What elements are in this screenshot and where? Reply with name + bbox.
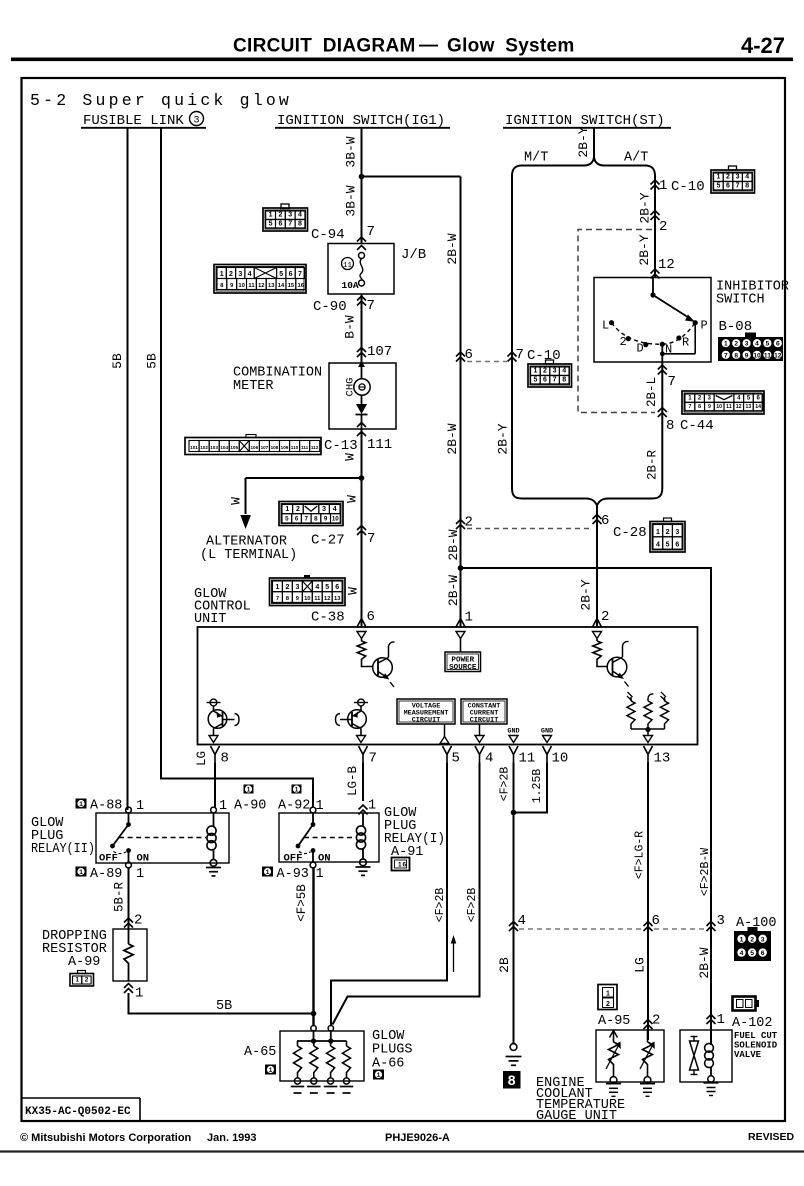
wire LG-B pin7 to relay coil (362, 763, 364, 802)
svg-text:<F>2B-W: <F>2B-W (699, 848, 712, 896)
svg-text:A-65: A-65 (244, 1045, 276, 1060)
current arrow pin5 (451, 935, 457, 972)
connector C-13 (185, 435, 358, 455)
svg-text:10: 10 (332, 515, 339, 522)
svg-text:4: 4 (333, 506, 337, 513)
GCU pin 5 fork (443, 746, 460, 767)
svg-text:6: 6 (726, 182, 730, 189)
svg-text:5: 5 (279, 271, 283, 278)
connector A-100 (734, 916, 777, 961)
svg-text:101: 101 (190, 445, 198, 450)
svg-text:2: 2 (726, 174, 730, 181)
svg-text:A-88: A-88 (90, 799, 122, 814)
svg-text:2: 2 (296, 506, 300, 513)
label A-102 (732, 1016, 773, 1031)
label A-93 (277, 867, 324, 882)
footer copyright (20, 1132, 257, 1144)
relay II contact (99, 807, 149, 864)
svg-text:<F>2B: <F>2B (499, 767, 512, 802)
svg-text:7: 7 (367, 298, 375, 314)
svg-text:10: 10 (552, 751, 569, 767)
inhibitor switch label (716, 280, 789, 336)
svg-text:A-90: A-90 (234, 799, 266, 814)
label 2B-W 2 (445, 423, 460, 454)
glow control unit box (198, 627, 698, 745)
svg-text:5: 5 (666, 542, 670, 549)
svg-text:1: 1 (75, 976, 79, 983)
svg-text:PHJE9026-A: PHJE9026-A (385, 1132, 450, 1144)
resistor bus and node (631, 727, 665, 736)
svg-text:A-92: A-92 (278, 799, 310, 814)
label 2B (497, 957, 512, 973)
GCU pin8 triangle (209, 736, 218, 743)
GND pin11 (507, 728, 519, 743)
dropping resistor box (113, 929, 147, 981)
svg-text:1: 1 (656, 529, 660, 536)
svg-text:8: 8 (698, 404, 701, 410)
GCU pin1 input triangle (456, 632, 465, 639)
wire F5B (312, 868, 314, 1026)
svg-text:6: 6 (278, 220, 282, 227)
svg-text:2B-W: 2B-W (697, 947, 712, 978)
wire pin5 to glow plugs (331, 763, 447, 1026)
svg-text:3: 3 (717, 913, 725, 929)
svg-text:2B-W: 2B-W (445, 233, 460, 264)
label 2B-Y MT (496, 423, 511, 454)
svg-text:1.25B: 1.25B (531, 769, 544, 804)
pin 2 C-44 (659, 219, 667, 235)
svg-text:1: 1 (659, 178, 667, 194)
pin 2 GCU (601, 609, 609, 625)
pin 1 GCU (465, 610, 473, 626)
connector C-94 (263, 204, 345, 243)
pin 6 C-38 (367, 609, 375, 625)
connector icon A-91 (392, 858, 410, 871)
pin 7 B-08 (668, 374, 676, 390)
svg-text:1: 1 (220, 271, 224, 278)
transistor Q1 (373, 642, 395, 687)
svg-text:9: 9 (324, 515, 328, 522)
svg-text:111: 111 (301, 445, 309, 450)
GCU pin7 triangle (357, 736, 366, 743)
label A-89 (90, 867, 144, 882)
connector icon A-88 (76, 799, 87, 809)
svg-text:4: 4 (315, 584, 319, 591)
svg-text:4-27: 4-27 (741, 33, 785, 58)
label W alternator (229, 497, 244, 505)
label 5B right (145, 353, 160, 369)
svg-text:2B: 2B (497, 957, 512, 973)
svg-text:VALVE: VALVE (734, 1050, 762, 1060)
pin 8 C-44 (666, 418, 714, 434)
svg-text:103: 103 (210, 445, 218, 450)
GCU pin 11 fork (509, 746, 535, 767)
label W 3 (346, 587, 361, 595)
svg-text:108: 108 (271, 445, 279, 450)
wire split M/T A/T (512, 156, 655, 361)
svg-text:1: 1 (247, 786, 251, 793)
label M/T (524, 151, 548, 166)
svg-text:9: 9 (296, 596, 300, 602)
svg-text:3: 3 (745, 341, 749, 348)
svg-text:2: 2 (750, 936, 754, 943)
page header title (233, 35, 575, 57)
svg-text:7: 7 (688, 404, 691, 410)
svg-text:METER: METER (233, 379, 274, 394)
svg-text:2B-Y: 2B-Y (579, 579, 594, 610)
svg-text:7: 7 (369, 751, 377, 767)
svg-text:2: 2 (85, 976, 89, 983)
svg-text:6: 6 (757, 396, 761, 402)
svg-text:2B-Y: 2B-Y (638, 192, 653, 223)
svg-text:1: 1 (269, 212, 273, 219)
label 2B-Y stem (576, 126, 591, 157)
label B-W (343, 315, 358, 339)
fuel cut valve symbol (690, 1037, 699, 1075)
fuel cut solenoid valve label (734, 1031, 778, 1060)
ECT gauge thermistors (606, 1030, 655, 1096)
resistor R3 (627, 692, 635, 729)
svg-text:A/T: A/T (624, 151, 648, 166)
svg-text:5: 5 (750, 950, 754, 957)
svg-text:C-44: C-44 (680, 418, 714, 434)
chevron C-28 pin6 (593, 515, 602, 525)
transistor Q2 (607, 641, 628, 686)
svg-text:9: 9 (745, 352, 749, 359)
wire W to C-27 (361, 478, 363, 627)
svg-text:7: 7 (288, 220, 292, 227)
junction block J/B (328, 244, 426, 295)
svg-text:C-13: C-13 (324, 438, 358, 454)
ground pin11 wire (506, 1044, 522, 1066)
wire to alternator (246, 478, 362, 514)
svg-text:2B-Y: 2B-Y (637, 234, 652, 265)
svg-text:7: 7 (724, 352, 728, 359)
svg-text:6: 6 (465, 347, 473, 363)
svg-text:A-89: A-89 (90, 867, 122, 882)
svg-text:C-38: C-38 (311, 610, 345, 626)
svg-text:SOLENOID: SOLENOID (734, 1041, 778, 1051)
svg-text:14: 14 (755, 404, 761, 410)
svg-text:1: 1 (377, 1072, 381, 1079)
chevron dropping resistor pin1 (124, 984, 133, 994)
svg-text:5-2 Super quick glow: 5-2 Super quick glow (30, 91, 292, 110)
svg-text:111: 111 (367, 437, 392, 453)
footer revised (748, 1131, 795, 1143)
svg-text:CHG: CHG (345, 378, 357, 397)
chevron C-27 (357, 526, 366, 536)
svg-text:1: 1 (276, 584, 280, 591)
svg-text:1: 1 (716, 174, 720, 181)
wire W below meter (361, 429, 363, 478)
wire B-W (361, 294, 363, 363)
alternator arrow (240, 515, 251, 529)
svg-text:2B-W: 2B-W (445, 423, 460, 454)
chevron A-95 pin2 (644, 1020, 653, 1030)
svg-text:14: 14 (278, 283, 285, 289)
svg-text:1: 1 (740, 936, 744, 943)
svg-text:A-102: A-102 (732, 1016, 773, 1031)
label 2B-Y to GCU (579, 579, 594, 610)
svg-text:CIRCUIT: CIRCUIT (470, 717, 499, 725)
combination meter label (233, 366, 322, 395)
ground ref 8 block (503, 1071, 521, 1089)
voltage measurement circuit box (397, 699, 455, 737)
svg-text:3: 3 (761, 936, 765, 943)
svg-text:2: 2 (601, 609, 609, 625)
transistor Q3 (207, 699, 240, 735)
svg-text:SWITCH: SWITCH (716, 293, 765, 308)
svg-text:2: 2 (606, 1001, 610, 1008)
svg-text:C-10: C-10 (671, 179, 705, 195)
svg-text:<F>2B: <F>2B (466, 888, 479, 923)
svg-text:6: 6 (761, 950, 765, 957)
label A-90 (219, 785, 266, 815)
svg-text:1: 1 (219, 799, 227, 814)
svg-text:A-99: A-99 (68, 955, 100, 970)
svg-text:2: 2 (278, 212, 282, 219)
chevron C-44 pin8 (658, 408, 667, 418)
svg-text:7: 7 (553, 376, 557, 383)
label 5B bottom (216, 999, 232, 1014)
svg-text:C-90: C-90 (313, 299, 347, 315)
chevron wire13 pin6 (644, 922, 653, 932)
svg-text:C-28: C-28 (613, 525, 647, 541)
svg-text:5: 5 (747, 396, 751, 402)
resistor R1 (357, 639, 373, 667)
svg-text:GND: GND (507, 728, 519, 736)
svg-text:1: 1 (285, 506, 289, 513)
svg-text:13: 13 (746, 404, 752, 410)
svg-text:D: D (637, 342, 644, 356)
svg-text:B-W: B-W (343, 315, 358, 339)
label 2B-L (645, 377, 659, 407)
glow control unit label (194, 587, 251, 627)
svg-text:16: 16 (297, 283, 304, 289)
pin 3 dashed (717, 913, 725, 929)
svg-text:(L TERMINAL): (L TERMINAL) (200, 548, 297, 563)
svg-text:10: 10 (238, 283, 244, 289)
svg-text:3: 3 (193, 116, 199, 127)
svg-text:4: 4 (298, 212, 302, 219)
header rule (11, 58, 793, 62)
svg-text:8: 8 (298, 220, 302, 227)
ECT gauge unit label (536, 1076, 625, 1124)
svg-text:1: 1 (136, 799, 144, 814)
section title 5-2 Super quick glow (30, 91, 292, 110)
svg-text:ON: ON (137, 853, 150, 865)
GND pin10 (541, 728, 553, 743)
pin 1 dropping resistor (135, 986, 143, 1002)
connector icon A-99 (70, 971, 94, 987)
svg-text:1: 1 (135, 986, 143, 1002)
svg-text:8: 8 (286, 596, 290, 602)
svg-text:2: 2 (134, 913, 142, 929)
svg-text:1: 1 (606, 990, 610, 997)
fork GCU pin2 (593, 610, 602, 627)
connector C-10 MT (528, 360, 572, 387)
node junction 2B-W solenoid feed (458, 565, 464, 571)
node junction IG1 branch (359, 174, 365, 180)
svg-text:4: 4 (745, 174, 749, 181)
chevron C-94 (357, 237, 366, 250)
pin 2 C-28 left (465, 515, 473, 531)
svg-text:6: 6 (776, 341, 780, 348)
wire 2B-W to solenoid (461, 568, 712, 1045)
chevron C-10 pin7 (508, 352, 517, 362)
svg-text:2B-Y: 2B-Y (496, 423, 511, 454)
stamp box KX35 (22, 1098, 141, 1121)
node pin10 join (511, 810, 517, 816)
inhibitor switch box (594, 278, 711, 363)
label F2B-W (699, 848, 712, 896)
relay II box (96, 813, 229, 863)
GCU pin5 triangle (440, 737, 449, 744)
pin 1 A-91 coil (368, 799, 376, 814)
GCU pin2 input triangle (593, 632, 602, 639)
chevron 111 (357, 423, 366, 437)
wire 5B right (161, 128, 313, 807)
svg-text:2B-R: 2B-R (646, 450, 660, 481)
dashed connector C-10 link (467, 361, 507, 363)
svg-text:11: 11 (519, 751, 536, 767)
svg-text:4: 4 (737, 396, 741, 402)
svg-text:4: 4 (485, 751, 493, 767)
svg-text:RELAY(II): RELAY(II) (31, 842, 95, 857)
GCU pin 10 fork (543, 746, 569, 767)
pin 107 (367, 344, 392, 360)
svg-text:5: 5 (452, 751, 460, 767)
svg-text:GAUGE UNIT: GAUGE UNIT (536, 1109, 617, 1124)
svg-text:5: 5 (269, 220, 273, 227)
svg-text:5B: 5B (110, 353, 125, 369)
svg-text:8: 8 (221, 751, 229, 767)
svg-text:7: 7 (736, 182, 740, 189)
svg-text:5: 5 (533, 376, 537, 383)
svg-text:11: 11 (248, 283, 255, 289)
dropping resistor label (42, 929, 107, 970)
svg-text:1: 1 (316, 799, 324, 814)
svg-text:3: 3 (708, 396, 712, 402)
svg-text:A-100: A-100 (736, 916, 777, 931)
fuel cut solenoid coil (704, 1041, 719, 1096)
svg-text:5: 5 (766, 341, 770, 348)
constant current circuit box (461, 699, 507, 736)
label 5B left (110, 353, 125, 369)
svg-text:2: 2 (285, 584, 289, 591)
svg-text:7: 7 (367, 531, 375, 547)
wire 2B-L (661, 362, 663, 488)
svg-text:A-66: A-66 (372, 1057, 404, 1072)
pin 4 dashed (518, 913, 526, 929)
svg-text:2: 2 (734, 341, 738, 348)
svg-text:13: 13 (654, 751, 671, 767)
relay II coil (206, 807, 221, 876)
svg-text:P: P (701, 319, 708, 333)
label W 1 (343, 453, 358, 461)
label A-95 (598, 1013, 660, 1030)
svg-text:2: 2 (543, 368, 547, 375)
svg-text:12: 12 (258, 283, 264, 289)
relay I contact (284, 807, 331, 864)
label LG-B (346, 766, 360, 797)
svg-text:102: 102 (200, 445, 208, 450)
svg-text:110: 110 (291, 445, 299, 450)
svg-text:107: 107 (261, 445, 269, 450)
label 2B-W 4 (446, 575, 461, 606)
chevron solenoid pin3 (707, 922, 716, 932)
svg-text:FUEL CUT: FUEL CUT (734, 1031, 778, 1041)
label 2B-Y AT 1 (638, 192, 653, 223)
svg-text:6: 6 (403, 862, 407, 869)
svg-text:105: 105 (230, 445, 238, 450)
label A-88 (90, 799, 144, 815)
combination meter box (329, 363, 396, 429)
chevron wire11 pin4 (509, 922, 518, 932)
label 5B-R (113, 882, 127, 913)
svg-text:UNIT: UNIT (194, 612, 226, 627)
dashed connector C-28 link (467, 528, 592, 530)
svg-text:112: 112 (311, 445, 319, 450)
wire pin4 to glow plugs (333, 763, 480, 1025)
label 1.25B pin10 (531, 769, 544, 804)
glow plug elements (291, 1041, 354, 1093)
svg-text:1: 1 (717, 1012, 725, 1028)
svg-text:KX35-AC-Q0502-EC: KX35-AC-Q0502-EC (25, 1106, 131, 1118)
svg-text:CIRCUIT: CIRCUIT (412, 717, 441, 725)
svg-text:2B-L: 2B-L (645, 377, 659, 407)
svg-text:2: 2 (666, 529, 670, 536)
svg-text:2: 2 (229, 271, 233, 278)
label LG pin8 (195, 751, 209, 766)
ECT gauge unit box (596, 1030, 664, 1082)
svg-text:GND: GND (541, 728, 553, 736)
svg-text:6: 6 (367, 609, 375, 625)
svg-text:1: 1 (465, 610, 473, 626)
label LG (633, 957, 648, 973)
svg-text:PLUGS: PLUGS (372, 1043, 413, 1058)
relay II dashed link (119, 837, 206, 839)
svg-text:1: 1 (398, 862, 402, 869)
svg-text:5: 5 (325, 584, 329, 591)
svg-text:1: 1 (688, 396, 692, 402)
connector icon A-93 (262, 867, 273, 877)
fuse 10A circled 11 (342, 253, 365, 292)
svg-text:9: 9 (230, 283, 234, 289)
ignition switch IG1 label (275, 113, 450, 129)
svg-text:LG: LG (195, 751, 209, 766)
node 5B junction (311, 1011, 317, 1017)
svg-text:7: 7 (298, 271, 302, 278)
svg-text:2B-W: 2B-W (446, 529, 461, 560)
wire 2B-W branch horizontal (362, 176, 461, 178)
svg-text:LG-B: LG-B (346, 766, 360, 797)
chevron C-10 pin1 (651, 180, 660, 190)
svg-text:A-95: A-95 (598, 1014, 630, 1029)
chevron C-90 below J/B (357, 296, 366, 306)
svg-text:12: 12 (658, 257, 675, 273)
svg-text:7: 7 (668, 374, 676, 390)
svg-text:REVISED: REVISED (748, 1131, 795, 1143)
pin 111 (367, 437, 392, 453)
svg-text:1: 1 (79, 801, 83, 808)
svg-text:104: 104 (220, 445, 228, 450)
relay I output terminal (310, 862, 316, 868)
chevron C-44 pin2 (651, 211, 660, 221)
pin 7 C-94 (367, 224, 375, 240)
svg-text:4: 4 (518, 913, 526, 929)
connector C-10 AT (711, 166, 755, 193)
